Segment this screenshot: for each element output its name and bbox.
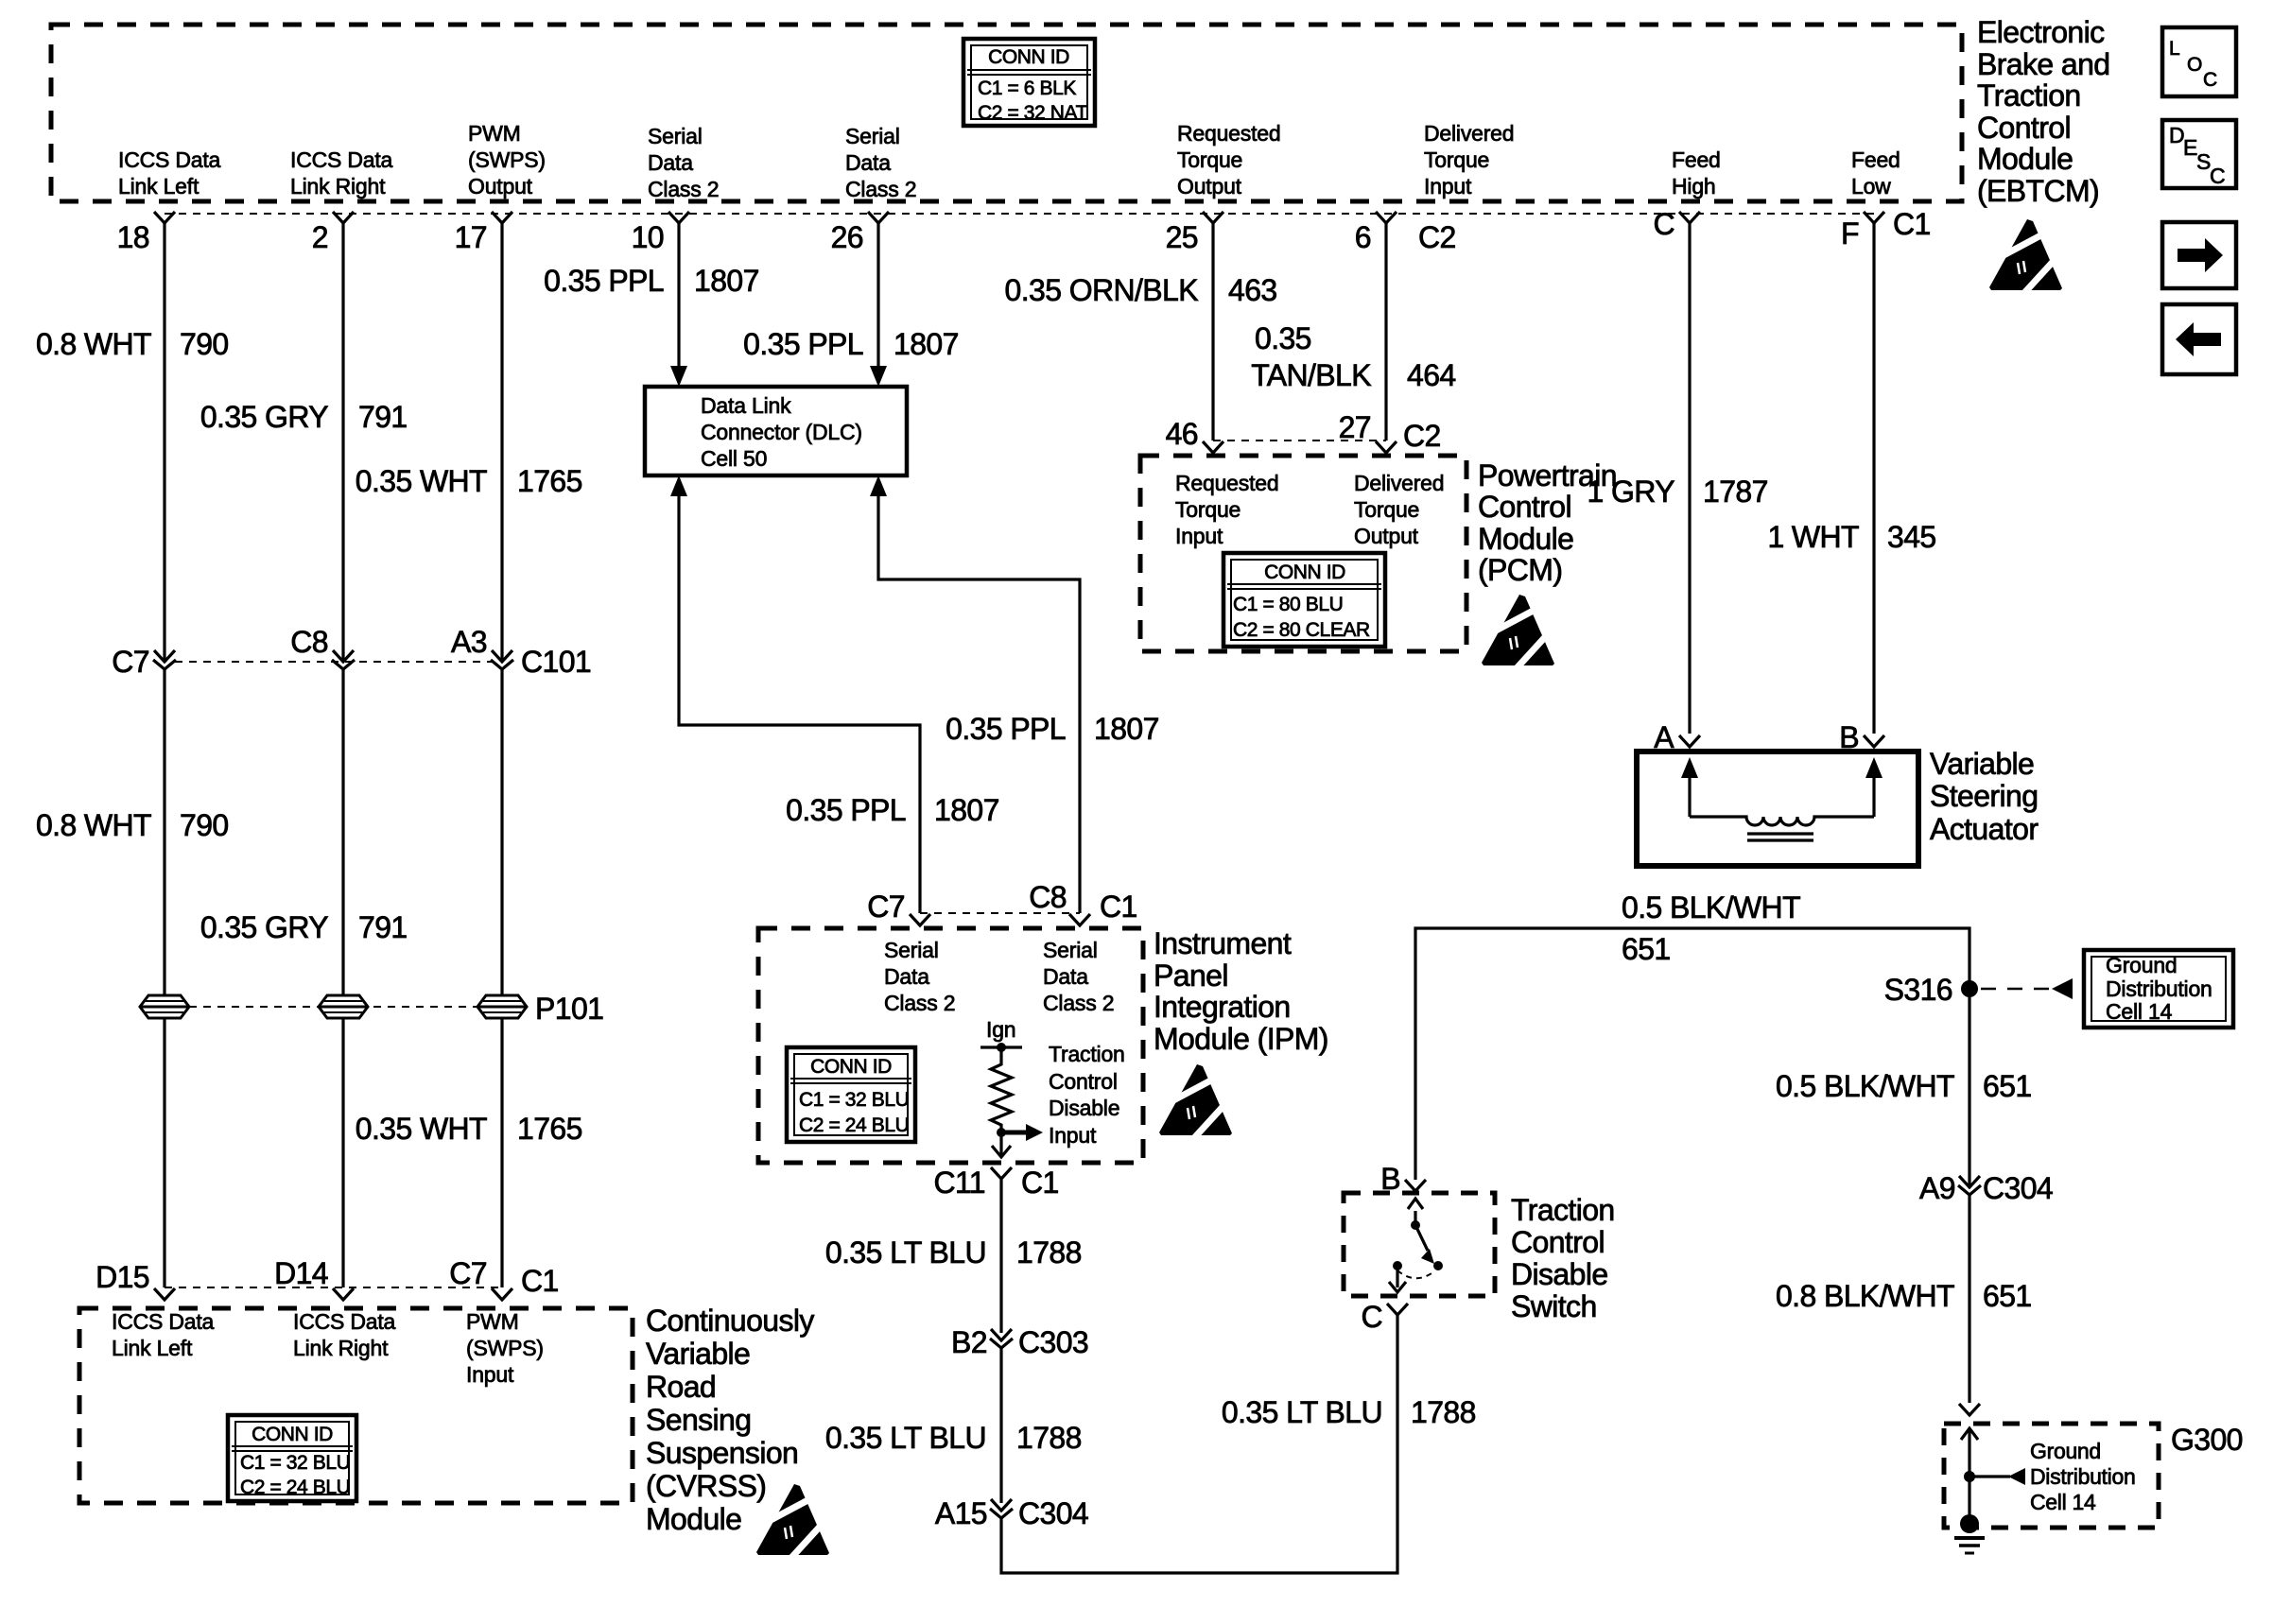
svg-text:L: L (2169, 38, 2179, 60)
svg-text:Control: Control (1511, 1225, 1605, 1259)
svg-text:Serial: Serial (1043, 938, 1098, 962)
module IPM dashed box (758, 928, 1143, 1163)
svg-text:C1: C1 (521, 1264, 559, 1298)
svg-text:C2 = 32 NAT: C2 = 32 NAT (978, 102, 1088, 124)
G300 internal node (1964, 1471, 1975, 1482)
svg-text:D14: D14 (274, 1256, 328, 1290)
svg-text:Control: Control (1977, 111, 2071, 145)
svg-text:O: O (2187, 54, 2202, 76)
svg-text:CONN ID: CONN ID (988, 46, 1069, 68)
svg-text:2: 2 (312, 220, 328, 254)
right arrow icon box (2162, 222, 2236, 288)
splice S316 (1961, 980, 1978, 997)
svg-text:1788: 1788 (1411, 1395, 1476, 1429)
svg-text:C1 = 80 BLU: C1 = 80 BLU (1233, 594, 1343, 615)
svg-text:0.35 PPL: 0.35 PPL (544, 264, 664, 298)
module PCM dashed box (1140, 456, 1466, 651)
CVRSS pin D14 (333, 1288, 354, 1300)
G300 dashed box (1944, 1424, 2159, 1528)
svg-text:Delivered: Delivered (1354, 471, 1444, 495)
pin function label Delivered Torque Input (1424, 121, 1514, 199)
svg-text:Requested: Requested (1175, 471, 1278, 495)
svg-text:Data: Data (648, 150, 693, 175)
svg-text:C303: C303 (1018, 1325, 1088, 1359)
svg-text:Traction: Traction (1511, 1193, 1615, 1227)
wire 790 below C7 (163, 669, 165, 1287)
CONN ID box CVRSS (228, 1415, 356, 1501)
wire 0.35 LT BLU 1788 below C303 (999, 1348, 1002, 1503)
svg-text:Module: Module (646, 1502, 741, 1536)
pin function label Serial Data Class 2 (left) (648, 124, 719, 201)
svg-text:27: 27 (1339, 410, 1371, 444)
svg-text:463: 463 (1228, 273, 1277, 307)
svg-text:(EBTCM): (EBTCM) (1977, 174, 2099, 208)
module CVRSS dashed box (79, 1308, 633, 1503)
svg-text:10: 10 (632, 220, 664, 254)
pin 26 EBTCM (868, 212, 889, 223)
svg-text:Instrument: Instrument (1154, 926, 1292, 960)
svg-text:Road: Road (646, 1370, 716, 1404)
ESD symbol IPM (1159, 1064, 1232, 1139)
svg-text:ICCS Data: ICCS Data (118, 147, 221, 172)
svg-text:790: 790 (180, 808, 229, 842)
svg-text:Cell 50: Cell 50 (701, 446, 767, 471)
svg-text:Serial: Serial (845, 124, 900, 148)
G300 internal arrow (1961, 1428, 1978, 1440)
svg-text:1788: 1788 (1016, 1235, 1082, 1270)
svg-text:0.35 PPL: 0.35 PPL (786, 793, 906, 827)
G300 pin chevron (1959, 1404, 1980, 1415)
svg-text:Data: Data (1043, 964, 1088, 989)
svg-text:0.35 WHT: 0.35 WHT (356, 464, 487, 498)
svg-text:G300: G300 (2171, 1423, 2243, 1457)
Data Link Connector (DLC) box (645, 387, 907, 475)
svg-text:Ground: Ground (2106, 953, 2178, 977)
VSA internal arrow A (1681, 757, 1698, 778)
svg-text:C8: C8 (290, 625, 328, 659)
svg-text:Suspension: Suspension (646, 1436, 798, 1470)
svg-text:PWM: PWM (468, 121, 521, 146)
splice on wire 791 at P101 (319, 995, 368, 1018)
svg-text:F: F (1841, 216, 1859, 251)
wire from IPM C7 up into DLC bottom (670, 475, 687, 496)
pin 10 EBTCM (668, 212, 689, 223)
svg-text:Requested: Requested (1177, 121, 1280, 146)
svg-text:Disable: Disable (1511, 1257, 1608, 1291)
switch pin C (1387, 1304, 1408, 1315)
svg-text:C101: C101 (521, 645, 591, 679)
svg-text:Torque: Torque (1354, 497, 1419, 522)
IPM internal node and arrow Traction Control Disable Input (997, 1128, 1006, 1137)
svg-text:0.35: 0.35 (1255, 321, 1311, 355)
svg-text:651: 651 (1983, 1279, 2032, 1313)
svg-text:Input: Input (1424, 174, 1472, 199)
svg-text:C8: C8 (1029, 880, 1067, 914)
svg-text:26: 26 (831, 220, 863, 254)
svg-text:C2 = 24 BLU: C2 = 24 BLU (240, 1477, 350, 1498)
svg-text:1765: 1765 (517, 464, 582, 498)
svg-text:1807: 1807 (694, 264, 759, 298)
svg-text:CONN ID: CONN ID (252, 1424, 333, 1445)
VSA internal arrow B (1865, 757, 1883, 778)
svg-text:Distribution: Distribution (2030, 1464, 2135, 1489)
svg-text:651: 651 (1622, 932, 1671, 966)
svg-text:6: 6 (1355, 220, 1371, 254)
svg-text:Input: Input (466, 1362, 514, 1387)
wire 0.35 PPL 1807 from pin 26 to DLC (876, 223, 879, 369)
wire 0.35 LT BLU 1788 from IPM C11 (999, 1179, 1002, 1333)
CVRSS pin bus thin dashed line (165, 1287, 502, 1288)
svg-text:Integration: Integration (1154, 990, 1291, 1024)
svg-text:C: C (2210, 164, 2225, 188)
dashed reference wire to Ground Distribution (1981, 988, 2056, 991)
pin 18 EBTCM (154, 212, 175, 223)
svg-text:Sensing: Sensing (646, 1403, 751, 1437)
wire 0.35 WHT 1765 (PWM SWPS) (500, 223, 503, 660)
switch blade (1415, 1225, 1428, 1251)
svg-text:Link Left: Link Left (112, 1336, 193, 1360)
svg-text:1787: 1787 (1703, 475, 1768, 509)
pin C EBTCM Feed High (1679, 212, 1700, 223)
svg-text:46: 46 (1166, 417, 1198, 451)
svg-text:S316: S316 (1884, 973, 1952, 1007)
svg-text:0.35 ORN/BLK: 0.35 ORN/BLK (1005, 273, 1199, 307)
svg-text:Data Link: Data Link (701, 393, 791, 418)
wire 1765 below C101 (500, 669, 503, 1287)
svg-text:(SWPS): (SWPS) (466, 1336, 544, 1360)
pin function label ICCS Data Link Right (290, 147, 393, 199)
switch contact C (1393, 1261, 1402, 1270)
svg-text:C2: C2 (1403, 419, 1441, 453)
LOC icon box (2162, 27, 2236, 96)
wire 0.35 ORN/BLK 463 pin 25 to PCM 46 (1211, 223, 1214, 441)
wire 0.35 TAN/BLK 464 pin 6 to PCM 27 (1384, 223, 1387, 441)
resistor in IPM (991, 1047, 1012, 1132)
svg-text:(PCM): (PCM) (1478, 553, 1562, 587)
svg-text:Link Right: Link Right (290, 174, 386, 199)
IPM Ign bus and node (980, 1045, 1022, 1048)
svg-text:Switch: Switch (1511, 1289, 1597, 1323)
svg-text:Serial: Serial (884, 938, 939, 962)
svg-text:Module: Module (1478, 522, 1573, 556)
wire 1 WHT 345 Feed Low (1872, 223, 1875, 734)
svg-text:D15: D15 (95, 1260, 149, 1294)
PCM label Requested Torque Input (1175, 471, 1278, 548)
CVRSS pin D15 (154, 1288, 175, 1300)
IPM module name (1154, 926, 1328, 1056)
pin function label ICCS Data Link Left (118, 147, 221, 199)
svg-text:C: C (1361, 1300, 1382, 1334)
wire 0.35 PPL 1807 from pin 10 to DLC (677, 223, 680, 369)
svg-text:Link Right: Link Right (293, 1336, 389, 1360)
EBTCM label Electronic Brake and Traction Control Module (1977, 15, 2109, 208)
in-line connector C7 on wire 790 (153, 650, 176, 669)
svg-text:C1 = 32 BLU: C1 = 32 BLU (240, 1452, 350, 1474)
splice on wire 1765 at P101 (477, 995, 527, 1018)
svg-text:Module (IPM): Module (IPM) (1154, 1022, 1328, 1056)
ESD symbol CVRSS (756, 1484, 829, 1559)
ground symbol G300 (1960, 1514, 1979, 1533)
svg-text:C1 = 32 BLU: C1 = 32 BLU (799, 1089, 909, 1111)
svg-text:C7: C7 (112, 645, 149, 679)
svg-text:C11: C11 (933, 1166, 985, 1200)
svg-text:Feed: Feed (1672, 147, 1721, 172)
svg-text:Brake and: Brake and (1977, 47, 2109, 81)
svg-text:TAN/BLK: TAN/BLK (1251, 358, 1371, 392)
CVRSS pin C7 / C1 (492, 1288, 512, 1300)
VSA pin A (1679, 735, 1700, 747)
IPM pin C7 (910, 914, 930, 925)
Ground Distribution Cell 14 reference box (S316) (2084, 950, 2233, 1028)
switch module name (1511, 1193, 1615, 1323)
svg-text:0.35 LT BLU: 0.35 LT BLU (1222, 1395, 1382, 1429)
svg-text:Class 2: Class 2 (1043, 991, 1114, 1015)
wire 1 GRY 1787 Feed High (1688, 223, 1691, 734)
svg-text:P101: P101 (535, 992, 603, 1026)
wire 0.35 GRY 791 (ICCS Data Link Right) (341, 223, 344, 660)
svg-text:Actuator: Actuator (1930, 812, 2039, 846)
svg-text:C1: C1 (1893, 207, 1931, 241)
svg-text:B2: B2 (951, 1325, 987, 1359)
svg-text:Electronic: Electronic (1977, 15, 2105, 49)
PCM pin 27 (1376, 441, 1397, 453)
wire from A15 C304 to switch C (1001, 1315, 1397, 1573)
svg-text:0.5 BLK/WHT: 0.5 BLK/WHT (1622, 890, 1800, 924)
svg-text:ICCS Data: ICCS Data (293, 1309, 396, 1334)
svg-text:Low: Low (1851, 174, 1891, 199)
module EBTCM dashed box (51, 25, 1962, 201)
Variable Steering Actuator box (1637, 752, 1918, 866)
wire 791 below C8 (341, 669, 344, 1287)
IPM wire to C11 with down arrow (999, 1132, 1002, 1155)
svg-text:C2 = 80 CLEAR: C2 = 80 CLEAR (1233, 619, 1370, 641)
PCM pin bus thin dashed line (1213, 440, 1386, 441)
in-line connector A15 C304 (990, 1499, 1013, 1518)
svg-text:0.8 WHT: 0.8 WHT (36, 327, 151, 361)
svg-text:Traction: Traction (1049, 1042, 1125, 1066)
in-line connector C8 on wire 791 (332, 650, 355, 669)
svg-text:D: D (2169, 123, 2184, 147)
VSA pin B (1864, 735, 1884, 747)
svg-text:651: 651 (1983, 1069, 2032, 1103)
pin function label PWM (SWPS) Output (468, 121, 546, 199)
switch internal contact B arrow (1414, 1211, 1416, 1225)
in-line connector A9 C304 (1958, 1176, 1981, 1195)
svg-text:1 GRY: 1 GRY (1588, 475, 1675, 509)
svg-text:0.8 BLK/WHT: 0.8 BLK/WHT (1776, 1279, 1954, 1313)
svg-text:Ign: Ign (986, 1017, 1015, 1042)
svg-text:C: C (2203, 69, 2217, 91)
svg-text:Delivered: Delivered (1424, 121, 1514, 146)
svg-text:1807: 1807 (894, 327, 959, 361)
svg-text:Output: Output (1354, 524, 1419, 548)
svg-text:Link Left: Link Left (118, 174, 200, 199)
PCM label Delivered Torque Output (1354, 471, 1444, 548)
pin 25 EBTCM (1203, 212, 1223, 223)
svg-text:S: S (2196, 149, 2211, 174)
svg-text:(SWPS): (SWPS) (468, 147, 546, 172)
svg-text:Disable: Disable (1049, 1096, 1119, 1120)
wire 0.8 BLK/WHT 651 to G300 (1968, 1195, 1970, 1403)
IPM label Serial Data Class 2 (right) (1043, 938, 1114, 1015)
svg-text:C1: C1 (1100, 890, 1137, 924)
svg-text:Distribution: Distribution (2106, 976, 2212, 1001)
svg-text:Feed: Feed (1851, 147, 1900, 172)
DESC icon box (2162, 120, 2236, 188)
wire 0.5 BLK/WHT 651 from switch B to S316 (1415, 928, 1969, 1186)
VSA module name (1930, 747, 2039, 846)
IPM pin bus thin dashed line (920, 912, 1080, 914)
svg-text:Module: Module (1977, 142, 2073, 176)
dashed line connecting P101 splices (189, 1006, 477, 1008)
pin 17 EBTCM (492, 212, 512, 223)
svg-text:E: E (2183, 135, 2197, 160)
svg-text:464: 464 (1407, 358, 1456, 392)
svg-text:Steering: Steering (1930, 779, 2038, 813)
svg-text:0.8 WHT: 0.8 WHT (36, 808, 151, 842)
splice on wire 790 at P101 (140, 995, 189, 1018)
pin 2 EBTCM (333, 212, 354, 223)
dashed line connecting C7 C8 A3 connectors (175, 661, 492, 663)
in-line connector A3 / C101 on wire 1765 (491, 650, 513, 669)
pin function label Serial Data Class 2 (right) (845, 124, 916, 201)
svg-text:Class 2: Class 2 (884, 991, 955, 1015)
svg-text:345: 345 (1887, 520, 1936, 554)
svg-text:C1: C1 (1021, 1166, 1059, 1200)
VSA internal coil (1690, 817, 1874, 825)
svg-text:18: 18 (117, 220, 149, 254)
CONN ID box PCM (1223, 553, 1385, 647)
svg-text:791: 791 (358, 400, 408, 434)
pin 6 EBTCM (1376, 212, 1397, 223)
svg-text:Cell 14: Cell 14 (2030, 1490, 2096, 1514)
PCM pin 46 (1203, 441, 1223, 453)
svg-text:Serial: Serial (648, 124, 703, 148)
in-line connector B2 C303 (990, 1329, 1013, 1348)
PCM module name (1478, 458, 1617, 587)
svg-text:0.35 LT BLU: 0.35 LT BLU (825, 1421, 986, 1455)
svg-text:Input: Input (1175, 524, 1223, 548)
svg-text:Control: Control (1049, 1069, 1118, 1094)
svg-text:Class 2: Class 2 (648, 177, 719, 201)
svg-text:1807: 1807 (934, 793, 999, 827)
svg-text:Output: Output (1177, 174, 1242, 199)
svg-text:Ground: Ground (2030, 1439, 2101, 1463)
ESD symbol EBTCM (1989, 219, 2062, 294)
svg-text:Panel: Panel (1154, 959, 1228, 993)
svg-text:CONN ID: CONN ID (1264, 561, 1345, 583)
pin F EBTCM Feed Low (1864, 212, 1884, 223)
G300 label Ground Distribution Cell 14 (2030, 1439, 2135, 1514)
IPM pin C11 / C1 (991, 1167, 1012, 1179)
CVRSS label ICCS Data Link Left (112, 1309, 215, 1360)
svg-text:ICCS Data: ICCS Data (112, 1309, 215, 1334)
EBTCM pin bus thin dashed line (165, 213, 1874, 215)
svg-text:1765: 1765 (517, 1112, 582, 1146)
svg-text:C304: C304 (1983, 1171, 2053, 1205)
svg-text:0.35 GRY: 0.35 GRY (200, 910, 328, 944)
svg-text:Variable: Variable (646, 1337, 750, 1371)
switch pin B (1405, 1180, 1426, 1191)
CONN ID box EBTCM (963, 39, 1095, 126)
pin function label Requested Torque Output (1177, 121, 1280, 199)
svg-text:Variable: Variable (1930, 747, 2034, 781)
svg-text:C7: C7 (449, 1256, 487, 1290)
svg-text:C2: C2 (1418, 220, 1456, 254)
svg-text:0.35 PPL: 0.35 PPL (946, 712, 1066, 746)
svg-text:Cell 14: Cell 14 (2106, 999, 2173, 1024)
svg-text:1 WHT: 1 WHT (1767, 520, 1859, 554)
Traction Control Disable Switch dashed box (1344, 1193, 1495, 1296)
svg-text:A3: A3 (451, 625, 487, 659)
svg-text:A9: A9 (1919, 1171, 1955, 1205)
CONN ID box IPM (787, 1047, 915, 1142)
svg-text:Torque: Torque (1177, 147, 1242, 172)
svg-text:Data: Data (884, 964, 929, 989)
ESD symbol PCM (1482, 595, 1554, 669)
IPM label Serial Data Class 2 (left) (884, 938, 955, 1015)
CVRSS label PWM (SWPS) Input (466, 1309, 544, 1387)
CVRSS module name (646, 1304, 814, 1536)
svg-text:0.35 WHT: 0.35 WHT (356, 1112, 487, 1146)
svg-text:Torque: Torque (1424, 147, 1489, 172)
svg-text:Traction: Traction (1977, 78, 2081, 112)
svg-text:25: 25 (1166, 220, 1198, 254)
svg-text:Input: Input (1049, 1123, 1097, 1148)
svg-text:Data: Data (845, 150, 891, 175)
svg-text:Connector (DLC): Connector (DLC) (701, 420, 862, 444)
svg-text:High: High (1672, 174, 1716, 199)
IPM pin C8 / C1 (1069, 914, 1090, 925)
wire 0.8 WHT 790 (ICCS Data Link Left) (163, 223, 165, 660)
svg-text:0.35 GRY: 0.35 GRY (200, 400, 328, 434)
svg-text:(CVRSS): (CVRSS) (646, 1469, 766, 1503)
svg-text:C304: C304 (1018, 1496, 1088, 1530)
svg-text:ICCS Data: ICCS Data (290, 147, 393, 172)
svg-text:Class 2: Class 2 (845, 177, 916, 201)
svg-text:PWM: PWM (466, 1309, 519, 1334)
svg-text:A15: A15 (935, 1496, 987, 1530)
svg-text:C7: C7 (867, 890, 905, 924)
svg-text:Control: Control (1478, 490, 1571, 524)
svg-text:0.35 LT BLU: 0.35 LT BLU (825, 1235, 986, 1270)
CVRSS label ICCS Data Link Right (293, 1309, 396, 1360)
svg-text:790: 790 (180, 327, 229, 361)
svg-text:1788: 1788 (1016, 1421, 1082, 1455)
wire from IPM C8 up into DLC bottom (870, 475, 887, 496)
svg-text:Continuously: Continuously (646, 1304, 814, 1338)
svg-text:C: C (1653, 207, 1674, 241)
svg-text:0.35 PPL: 0.35 PPL (743, 327, 863, 361)
svg-text:Torque: Torque (1175, 497, 1241, 522)
left arrow icon box (2162, 304, 2236, 374)
svg-text:CONN ID: CONN ID (810, 1056, 892, 1078)
svg-text:C2 = 24 BLU: C2 = 24 BLU (799, 1114, 909, 1136)
svg-text:1807: 1807 (1094, 712, 1159, 746)
svg-text:0.5 BLK/WHT: 0.5 BLK/WHT (1776, 1069, 1954, 1103)
svg-text:C1 = 6 BLK: C1 = 6 BLK (978, 78, 1076, 99)
svg-text:17: 17 (455, 220, 487, 254)
svg-text:791: 791 (358, 910, 408, 944)
svg-text:Output: Output (468, 174, 533, 199)
